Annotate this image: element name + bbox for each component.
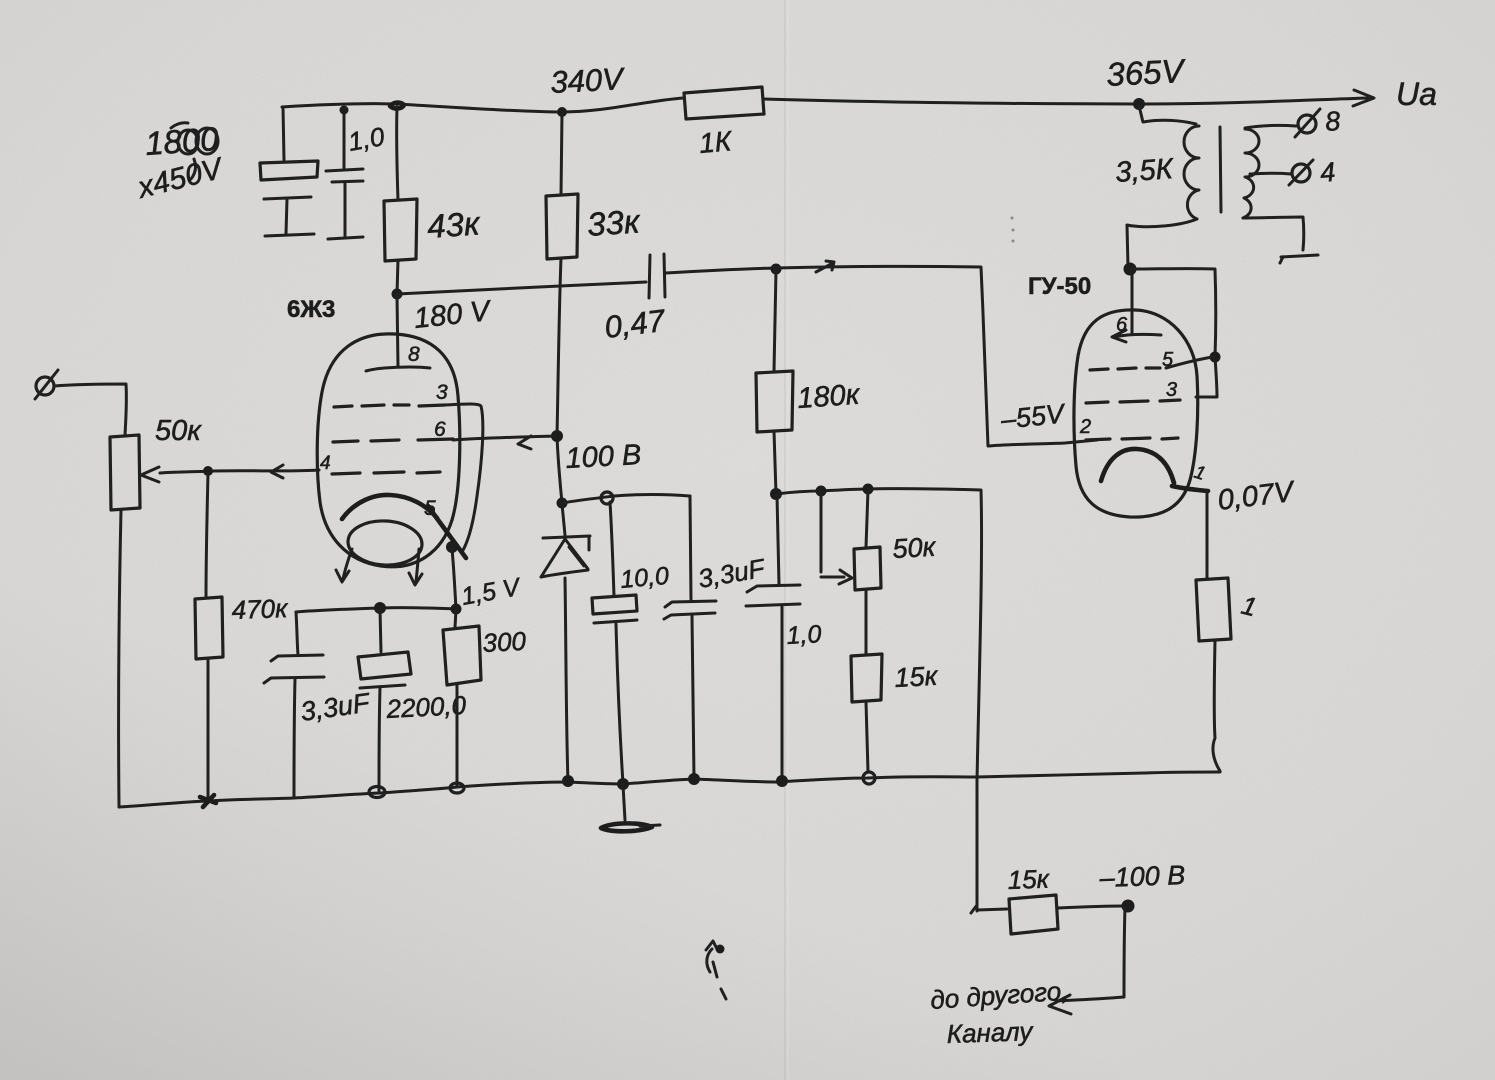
node cathode junction bbox=[446, 541, 458, 553]
svg-text:6: 6 bbox=[434, 418, 446, 441]
capacitor 2200 top box bbox=[358, 652, 411, 679]
svg-text:50к: 50к bbox=[155, 415, 202, 447]
svg-text:6Ж3: 6Ж3 bbox=[287, 296, 335, 323]
svg-text:1К: 1К bbox=[698, 125, 734, 159]
wire 1,5V rail bbox=[296, 608, 456, 612]
ground secondary bbox=[1280, 255, 1318, 263]
svg-text:2: 2 bbox=[1079, 416, 1091, 438]
svg-text:ГУ-50: ГУ-50 bbox=[1028, 273, 1091, 300]
node 340V bbox=[557, 107, 567, 117]
wire screen node to caps bbox=[562, 495, 690, 504]
transformer primary coil 3,5K bbox=[1184, 126, 1199, 219]
svg-text:340V: 340V bbox=[550, 61, 627, 100]
svg-text:15к: 15к bbox=[894, 661, 940, 693]
wire node to -55V corner bbox=[776, 266, 1097, 446]
svg-text:Ua: Ua bbox=[1396, 76, 1437, 112]
transformer primary bottom lead bbox=[1127, 219, 1197, 267]
tube GU-50 anode lead bbox=[1131, 269, 1134, 334]
resistor 33k bbox=[546, 194, 578, 259]
capacitor 1,0 right bottom lead bbox=[781, 606, 784, 782]
wire 15k to -100V node bbox=[1058, 906, 1124, 908]
wire 180V node to coupling cap bbox=[397, 282, 646, 294]
zener diode lead bottom bbox=[565, 578, 568, 782]
tube 6Zh3 anode lead bbox=[397, 295, 398, 367]
pin 1 lead bbox=[1172, 486, 1208, 491]
node -100V bbox=[1122, 900, 1135, 913]
svg-text:8: 8 bbox=[408, 343, 420, 366]
transformer secondary mid tap bbox=[1250, 172, 1291, 176]
resistor 470k lead bottom bbox=[207, 659, 210, 800]
terminal F4 bbox=[1292, 164, 1310, 182]
resistor 43k bbox=[384, 199, 417, 261]
capacitor 3,3uF left lead bbox=[296, 612, 298, 655]
resistor 180k lead top bbox=[774, 270, 776, 371]
svg-text:4: 4 bbox=[320, 453, 331, 474]
capacitor 1800uF bottom electrode bbox=[264, 197, 314, 236]
tube GU-50 anode plate bbox=[1112, 330, 1161, 342]
resistor 470k bbox=[195, 597, 223, 659]
grid row pin3 dashes bbox=[334, 405, 445, 407]
wire pin4 to pot wiper bbox=[160, 470, 319, 473]
capacitor 1,0 bottom lead bbox=[328, 182, 363, 239]
node 365V bbox=[1133, 98, 1145, 110]
bias feed tick bbox=[971, 905, 977, 913]
resistor 300 lead top bbox=[455, 610, 456, 627]
input terminal slash bbox=[35, 370, 58, 399]
node pin5 tie bbox=[1210, 352, 1221, 363]
wire bias to 15k bbox=[977, 909, 1007, 910]
capacitor 3,3uF mid lead top bbox=[690, 496, 691, 601]
cathode resistor lead bbox=[1206, 491, 1209, 578]
node 180V bbox=[392, 289, 403, 300]
pot 50k bottom lead bbox=[119, 510, 121, 806]
tube 6Zh3 cathode arc bbox=[342, 495, 437, 519]
resistor 15k bias bbox=[1009, 895, 1058, 934]
transformer secondary top lead bbox=[1245, 125, 1296, 128]
resistor 1K bbox=[684, 87, 764, 119]
node 180k bottom bbox=[770, 488, 782, 500]
wire anode node to screen drop bbox=[1131, 269, 1217, 397]
svg-text:43к: 43к bbox=[426, 204, 482, 245]
paper fold crease bbox=[784, 0, 786, 1080]
svg-text:Каналу: Каналу bbox=[946, 1016, 1035, 1049]
ground symbol stem bbox=[623, 785, 625, 820]
bus node 2200 hollow bbox=[369, 787, 385, 798]
terminal F8 bbox=[1298, 115, 1316, 133]
bus node 300 hollow bbox=[450, 783, 464, 793]
capacitor 10,0 lead top bbox=[610, 502, 614, 596]
node 1,5V bbox=[451, 604, 462, 615]
resistor 300 lead bottom bbox=[456, 684, 459, 787]
tube GU-50 cathode dome bbox=[1101, 449, 1174, 483]
capacitor 1,0 (top left) lead bbox=[343, 110, 346, 168]
svg-text:15к: 15к bbox=[1007, 864, 1051, 895]
node 100B bbox=[551, 430, 563, 442]
capacitor 2200 lead bbox=[380, 609, 381, 652]
tube 6Zh3 anode plate bbox=[366, 367, 430, 371]
ground symbol tail bbox=[640, 825, 660, 826]
arrow to other channel bbox=[1049, 995, 1071, 1014]
node anode junction bbox=[1124, 263, 1137, 276]
tube 6Zh3 envelope bbox=[317, 334, 460, 567]
capacitor 2200 bottom plate bbox=[360, 685, 405, 688]
faint dots bbox=[1011, 217, 1014, 220]
node 10,0 tap loop bbox=[601, 492, 613, 504]
svg-text:33к: 33к bbox=[586, 202, 642, 243]
resistor 1 bbox=[1196, 578, 1231, 641]
heater arrow right bbox=[409, 549, 422, 585]
resistor 180k lead bottom bbox=[774, 431, 776, 494]
svg-text:3,5К: 3,5К bbox=[1114, 153, 1175, 189]
input terminal bbox=[36, 377, 54, 395]
wire -100V down and left bbox=[1056, 907, 1125, 1001]
transformer primary top lead bbox=[1139, 106, 1196, 124]
svg-text:50к: 50к bbox=[892, 532, 938, 564]
capacitor 10,0 top plate box bbox=[592, 595, 637, 614]
resistor 1,5k bbox=[851, 654, 882, 702]
resistor 180k bbox=[756, 371, 793, 432]
node wiper tap bbox=[816, 486, 827, 497]
svg-text:4: 4 bbox=[1319, 157, 1337, 188]
potentiometer 50k bbox=[110, 435, 140, 510]
node 0,47 / 180k bbox=[771, 264, 782, 275]
wire pin6 to 100B node bbox=[453, 436, 556, 440]
node 2200 tap bbox=[374, 602, 386, 614]
svg-text:8: 8 bbox=[1324, 106, 1342, 137]
potentiometer 50k bias bbox=[854, 547, 881, 590]
capacitor 3,3uF bottom lead bbox=[294, 679, 295, 798]
node 1,5k to bus hollow bbox=[863, 772, 875, 784]
grid row pin5 dashes bbox=[1090, 368, 1160, 370]
grid row pin4 dashes bbox=[332, 472, 440, 474]
resistor 1 lead bottom bbox=[1213, 641, 1220, 771]
svg-text:180к: 180к bbox=[796, 379, 861, 415]
arrow mid on grid wire bbox=[271, 465, 283, 478]
bus node 10,0 bbox=[617, 778, 629, 790]
capacitor 10,0 bottom lead bbox=[616, 624, 623, 784]
capacitor 0,47 plates bbox=[649, 254, 665, 298]
svg-text:1,0: 1,0 bbox=[346, 121, 387, 157]
scribble over 00 bbox=[171, 123, 218, 179]
ground bus bbox=[119, 772, 1220, 807]
resistor 43k lead top bbox=[397, 107, 398, 200]
bus node zener bbox=[562, 775, 574, 787]
svg-text:6: 6 bbox=[1116, 314, 1128, 336]
svg-text:3: 3 bbox=[436, 381, 448, 404]
capacitor 2200 bottom lead bbox=[379, 688, 380, 791]
grid row pin3 dashes bbox=[1086, 400, 1180, 403]
pin 3 curve to cathode node bbox=[445, 404, 483, 552]
wire input to pot bbox=[54, 384, 126, 435]
tube GU-50 envelope bbox=[1074, 310, 1198, 517]
ground symbol bbox=[601, 823, 652, 831]
small arrow tick on wire bbox=[816, 261, 834, 272]
grid row pin6 dashes bbox=[333, 439, 453, 442]
wire 180k node to 50k bias pot rail bbox=[776, 489, 982, 911]
node screen bypass bbox=[557, 498, 568, 509]
capacitor 3,3uF mid plates bbox=[664, 601, 716, 619]
node cap 1,0 tap bbox=[340, 106, 349, 115]
svg-text:–100 В: –100 В bbox=[1098, 860, 1186, 893]
capacitor 1,0 right plates bbox=[746, 585, 800, 606]
tube 6Zh3 heater loop bbox=[347, 519, 423, 567]
node grid/470k bbox=[203, 466, 213, 476]
node at 43k top bbox=[390, 103, 404, 109]
resistor 1,5k lead bottom bbox=[866, 702, 868, 772]
capacitor 3,3uF mid bottom lead bbox=[692, 616, 694, 779]
grid row pin2 dashes bbox=[1086, 438, 1178, 440]
wire top B+ rail bbox=[282, 98, 683, 112]
ink doodle blob bbox=[716, 945, 725, 954]
resistor 43k lead bottom bbox=[397, 260, 398, 294]
capacitor 1,0 right lead top bbox=[777, 495, 779, 584]
transformer secondary bottom lead bbox=[1243, 217, 1304, 250]
resistor 33k lead bottom to 100B node bbox=[557, 258, 562, 503]
wire cathode node down to 1,5V node bbox=[452, 549, 456, 609]
capacitor 1800uF top plate bbox=[260, 161, 318, 180]
pin 5 exit line bbox=[1166, 357, 1213, 368]
svg-text:2200,0: 2200,0 bbox=[385, 690, 468, 724]
potentiometer 50k bias wiper bbox=[821, 492, 852, 584]
resistor 33k lead top bbox=[561, 113, 562, 195]
svg-text:100 В: 100 В bbox=[565, 439, 642, 475]
svg-text:10,0: 10,0 bbox=[619, 562, 670, 594]
arrow Ua bbox=[1353, 90, 1374, 106]
capacitor 3,3uF plates bbox=[264, 655, 324, 683]
svg-text:3: 3 bbox=[1166, 379, 1177, 401]
zener diode triangle bbox=[541, 539, 588, 577]
svg-text:470к: 470к bbox=[231, 593, 289, 625]
resistor 300 bbox=[443, 626, 481, 685]
zener diode cathode bar bbox=[543, 536, 590, 550]
node pot top tap bbox=[863, 484, 874, 495]
arrow at pot wiper bbox=[141, 467, 159, 482]
ink doodle arrow bbox=[706, 941, 726, 999]
transformer core bbox=[1220, 127, 1221, 212]
capacitor 10,0 bottom plate bbox=[594, 620, 637, 623]
potentiometer 50k bias lead top bbox=[866, 490, 868, 547]
wire top rail right of 1K to Ua arrow bbox=[763, 98, 1368, 104]
capacitor 1,0 plates bbox=[326, 169, 363, 182]
bus junction 470k arrowish bbox=[200, 795, 216, 807]
heater arrow left bbox=[336, 549, 352, 582]
capacitor 0,47 right wire bbox=[666, 268, 776, 273]
capacitor 1800uF x450V lead bbox=[283, 107, 284, 160]
arrow on pin6 wire bbox=[518, 436, 531, 449]
resistor 1,5k lead top bbox=[865, 590, 868, 654]
terminal F4 slash bbox=[1289, 160, 1313, 185]
resistor 470k lead top bbox=[206, 473, 208, 598]
zener diode lead top bbox=[562, 504, 565, 535]
transformer secondary coil bbox=[1243, 129, 1259, 218]
terminal F8 slash bbox=[1295, 109, 1320, 137]
pin 5 lead diagonal bbox=[428, 506, 466, 558]
svg-text:365V: 365V bbox=[1105, 52, 1187, 93]
svg-text:300: 300 bbox=[482, 626, 527, 658]
svg-text:1,0: 1,0 bbox=[786, 620, 822, 650]
bus node 3,3uF mid bbox=[688, 773, 700, 785]
bus node 1,0 right bbox=[776, 775, 788, 787]
